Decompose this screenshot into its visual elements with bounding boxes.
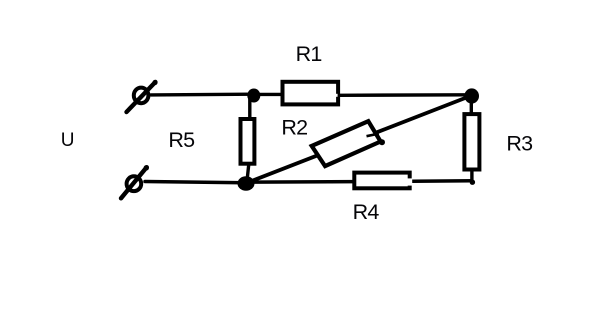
svg-text:R5: R5 <box>168 128 195 152</box>
svg-text:U: U <box>61 130 75 151</box>
svg-text:R3: R3 <box>506 132 533 156</box>
svg-text:R2: R2 <box>281 115 307 139</box>
svg-text:R4: R4 <box>353 200 380 224</box>
svg-text:R1: R1 <box>296 42 322 66</box>
